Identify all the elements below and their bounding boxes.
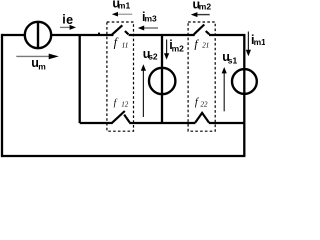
svg-text:s2: s2 bbox=[148, 51, 158, 61]
wire inner bottom rail segment 1 bbox=[80, 122, 113, 124]
svg-text:m: m bbox=[38, 62, 46, 72]
current source circle left bbox=[25, 22, 51, 48]
arrow u_s2 bbox=[141, 64, 146, 117]
wire left outer vertical bbox=[1, 34, 3, 157]
arrow u_m2 bbox=[191, 12, 210, 17]
voltage source us1 circle bbox=[232, 69, 257, 94]
svg-text:11: 11 bbox=[122, 41, 129, 50]
wire top from f11 to f21 bbox=[129, 34, 195, 36]
arrow u_m1 bbox=[112, 12, 133, 17]
switch f12 bbox=[112, 111, 129, 123]
svg-text:22: 22 bbox=[201, 101, 209, 109]
switch f22 bbox=[195, 113, 209, 123]
arrow i_e bbox=[60, 25, 76, 30]
svg-text:e: e bbox=[66, 13, 73, 27]
wire us2 branch bbox=[161, 35, 163, 123]
svg-text:12: 12 bbox=[121, 101, 129, 109]
node tick on top wire bbox=[98, 33, 100, 35]
arrow i_m2 bbox=[164, 40, 169, 60]
wire inner-left vertical bbox=[79, 35, 81, 123]
switch f21 bbox=[194, 25, 209, 35]
arrow u_m bbox=[16, 54, 59, 60]
wire inner bottom rail segment 2 bbox=[129, 122, 195, 124]
arrow i_m1 bbox=[246, 32, 251, 57]
voltage source us2 circle bbox=[149, 68, 175, 94]
arrow u_s1 bbox=[222, 67, 227, 111]
dashed box f11/f12 bbox=[107, 22, 134, 131]
svg-text:m3: m3 bbox=[145, 14, 158, 24]
wire top left segment bbox=[2, 34, 25, 36]
wire bottom outer rail bbox=[2, 155, 245, 157]
svg-text:m1: m1 bbox=[254, 37, 265, 47]
svg-text:m1: m1 bbox=[118, 1, 131, 11]
svg-text:s1: s1 bbox=[228, 55, 238, 65]
wire inner bottom rail segment 3 bbox=[209, 122, 245, 124]
wire right vertical bbox=[243, 35, 245, 156]
svg-text:21: 21 bbox=[202, 41, 209, 49]
wire top from f21 to right corner bbox=[209, 34, 245, 36]
svg-text:m2: m2 bbox=[199, 1, 212, 11]
svg-text:m2: m2 bbox=[172, 44, 185, 54]
wire top from source to f11 bbox=[51, 34, 113, 36]
arrow i_m3 bbox=[138, 26, 158, 31]
dashed box f21/f22 bbox=[188, 22, 215, 131]
switch f11 bbox=[112, 25, 129, 35]
